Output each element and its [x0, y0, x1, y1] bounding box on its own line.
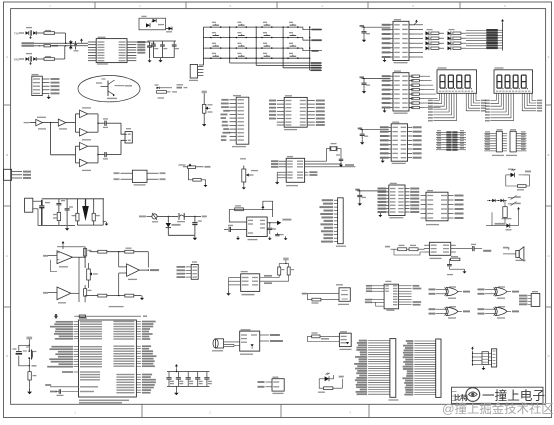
- ic U8 shift register: [269, 95, 325, 130]
- ic U12 LM386: [247, 217, 268, 240]
- ir diode circuit D4: [139, 16, 166, 30]
- capacitor C8: [74, 41, 79, 51]
- reset circuit button S17: [13, 337, 37, 372]
- dc jack J9: [212, 339, 240, 352]
- capacitor bank C18-C21: [166, 371, 211, 387]
- connector J6 analog: [177, 261, 199, 279]
- ic U25 temp sensor: [229, 271, 260, 295]
- resistor R32: [502, 207, 512, 223]
- capacitor C9: [103, 118, 121, 128]
- ground: [378, 212, 384, 217]
- ic U14 74HC595: [382, 70, 414, 113]
- resistor R1: [28, 372, 37, 391]
- connector J8: [519, 291, 540, 306]
- inverter U6A: [76, 140, 88, 163]
- resistor R2: [37, 30, 66, 34]
- net label P3.1/TXD: [22, 45, 35, 47]
- ground: [141, 296, 143, 298]
- potentiometer RV2: [240, 158, 258, 185]
- ic U21 eeprom: [258, 377, 285, 395]
- connector J10: [492, 349, 497, 367]
- wire: [43, 122, 59, 155]
- U1 part text: [79, 400, 129, 404]
- ic U24 interface: [365, 281, 421, 311]
- power flag VCC: [360, 76, 391, 82]
- capacitor decoupling: [362, 83, 371, 89]
- ground: [236, 229, 240, 240]
- resistor R9: [92, 199, 100, 225]
- connector J3 output: [125, 128, 132, 143]
- connector P2 header bundle: [402, 339, 441, 397]
- wire: [66, 114, 80, 132]
- resistor array R24-R31: [436, 130, 466, 151]
- inverter U5A: [36, 117, 46, 130]
- capacitor C14 electrolytic: [192, 216, 202, 236]
- inverter U5C: [80, 107, 92, 117]
- resistor R11: [84, 285, 92, 302]
- net label P3.0/RXD: [22, 42, 35, 44]
- wire bottom rail: [71, 293, 98, 302]
- optocoupler U3 input circuit: [14, 53, 36, 62]
- battery backup circuit D8 D9: [487, 196, 521, 207]
- wire bus to U7: [34, 43, 88, 47]
- fuse F1: [152, 213, 166, 223]
- wire: [79, 257, 85, 302]
- optocoupler U2 input circuit: [14, 27, 36, 36]
- connector J7 expansion: [319, 198, 346, 247]
- capacitor C13: [65, 199, 73, 226]
- resistor R4: [44, 45, 88, 47]
- wire: [30, 122, 36, 124]
- U1 right pins: [113, 321, 156, 394]
- ic U7 MAX232: [96, 37, 127, 63]
- trimmer RV3 circuit: [179, 163, 211, 182]
- wire: [65, 33, 67, 43]
- ground: [243, 185, 245, 187]
- transistor array Q1-Q8 with base resistors: [414, 25, 467, 57]
- svg-text:RXD: RXD: [14, 58, 19, 61]
- net labels keypad rows: [311, 29, 322, 72]
- ground: [464, 269, 466, 271]
- border zone ticks top: [95, 2, 460, 9]
- svg-text:B: B: [548, 153, 550, 157]
- zener diode D5: [166, 216, 181, 236]
- lcd contrast pot RV1: [202, 91, 213, 122]
- ground: [269, 236, 271, 238]
- ground: [275, 172, 279, 184]
- wire mesh to resistor pack: [466, 31, 486, 49]
- capacitor C10: [103, 152, 121, 160]
- trimmer RV4: [85, 263, 98, 288]
- ground: [174, 386, 178, 395]
- speaker LS1: [503, 247, 526, 261]
- capacitor bank C1-C3: [148, 41, 180, 58]
- power flag VCC: [80, 38, 83, 40]
- svg-text:TXD: TXD: [14, 32, 19, 35]
- ground: [363, 38, 365, 40]
- resistor pack R16-R23: [409, 75, 424, 109]
- crystal X2 32768Hz: [327, 143, 344, 163]
- svg-text:A: A: [548, 55, 550, 59]
- ground: [381, 158, 387, 163]
- svg-text:一撞上电子: 一撞上电子: [482, 389, 545, 403]
- capacitor C5: [136, 42, 155, 58]
- ground: [285, 236, 287, 238]
- varistor V1 circuit: [155, 84, 188, 89]
- border zone ticks sides: [4, 105, 552, 307]
- connector J4 dc input: [25, 198, 42, 225]
- diac D6: [166, 213, 207, 222]
- wire: [199, 27, 203, 65]
- battery BT1 circuit: [308, 332, 340, 341]
- resistor R14: [98, 294, 107, 297]
- svg-text:C: C: [6, 254, 8, 258]
- power flag VCC U13: [409, 20, 418, 25]
- ic U16 74HC595: [378, 183, 410, 219]
- ground: [361, 140, 363, 142]
- resistor R10: [84, 249, 92, 256]
- capacitor C12: [56, 199, 65, 213]
- net labels U15 outputs: [413, 126, 422, 158]
- wire bus display segments: [424, 76, 441, 107]
- capacitor decoupling: [360, 134, 369, 140]
- component U10 opto relay: [114, 170, 166, 185]
- ic U4 header: [32, 74, 60, 96]
- connector J1 power in: [4, 169, 31, 180]
- keypad matrix S1-S16: [203, 22, 322, 71]
- ground: [228, 291, 230, 293]
- display DS2 4-digit 7-segment: [494, 67, 533, 93]
- resistor R33 loop: [449, 255, 460, 264]
- display DS1 pin fan: [428, 93, 486, 121]
- ground: [66, 226, 68, 228]
- ground: [383, 108, 389, 113]
- svg-text:B: B: [6, 153, 8, 157]
- wire: [88, 114, 105, 132]
- ground: [194, 236, 196, 238]
- net labels U16 outputs: [410, 188, 419, 214]
- ic U15 74HC595: [380, 122, 412, 165]
- capacitor C16: [447, 265, 465, 276]
- display DS2 pin fan: [485, 93, 542, 121]
- led D7 indicator: [506, 169, 531, 191]
- logo box: [452, 387, 545, 403]
- diode D10: [486, 210, 519, 230]
- connector J5 lcd header: [220, 95, 248, 147]
- resistor R8: [72, 199, 80, 225]
- power flag VCC caps: [175, 364, 178, 372]
- power rail VCC display: [501, 19, 504, 51]
- power flag VCC: [355, 189, 386, 195]
- wire: [81, 42, 83, 43]
- svg-text:@撞上掘金技术社区: @撞上掘金技术社区: [442, 401, 554, 416]
- U1 left pins port0: [50, 321, 102, 340]
- inverter U5B: [58, 119, 67, 129]
- led D11 status: [318, 373, 344, 393]
- connector P1 header bundle: [354, 339, 398, 401]
- resistor pack RP1: [484, 129, 507, 156]
- resistor R13: [125, 248, 149, 268]
- ground: [205, 183, 207, 185]
- resistor R35: [157, 91, 178, 99]
- U1 left pins port2: [47, 346, 102, 368]
- svg-text:C: C: [548, 254, 550, 258]
- U1 reset pin circuit: [45, 384, 98, 396]
- xor gate U19B: [478, 286, 520, 298]
- ic U22 supervisor: [339, 331, 351, 350]
- wire: [64, 46, 66, 59]
- wire: [51, 154, 76, 156]
- ground: [48, 95, 50, 97]
- power ac input label: [139, 216, 152, 218]
- power flag VBAT: [517, 207, 520, 209]
- net label P3.0: [24, 122, 30, 123]
- ic label LM358: [109, 306, 124, 307]
- speaker output: [267, 219, 291, 236]
- wire: [42, 199, 104, 226]
- ground: [149, 58, 151, 60]
- pull-up resistors R36 R37: [260, 264, 294, 285]
- svg-text:D: D: [548, 354, 550, 358]
- ground: [160, 58, 162, 60]
- xor gate U19A: [429, 286, 471, 298]
- ground: [29, 389, 31, 391]
- resistor R12: [98, 250, 107, 253]
- transistor detail ellipse: [78, 76, 140, 102]
- U7 pins: [88, 41, 145, 65]
- ground: [473, 364, 486, 370]
- U1 left pins control: [62, 371, 100, 380]
- wire: [121, 123, 125, 154]
- power flag VCC: [358, 128, 389, 134]
- svg-text:D: D: [6, 354, 8, 358]
- ground: [30, 62, 32, 63]
- wire reset line: [54, 314, 147, 318]
- wire: [168, 234, 195, 236]
- resistor R15: [125, 294, 142, 297]
- wire: [88, 146, 105, 163]
- opamp U11A: [48, 251, 73, 268]
- power flag VCC opamp: [62, 241, 65, 249]
- ic U1 AT89C52 mcu: [79, 318, 137, 397]
- U9 right pins: [305, 161, 356, 176]
- capacitor C11 electrolytic: [39, 200, 50, 226]
- wire top rail: [85, 251, 98, 253]
- xor gate U19C: [429, 306, 471, 319]
- pull-up network RP3: [471, 347, 491, 366]
- power flag VCC: [360, 25, 391, 31]
- capacitor decoupling: [357, 195, 366, 201]
- wire feedback: [51, 247, 86, 272]
- resistor R3: [37, 56, 65, 60]
- ic U20 regulator AMS1117: [240, 329, 283, 355]
- power flag VSS: [82, 199, 89, 221]
- resistor pack RP2: [506, 129, 527, 156]
- ground: [203, 122, 205, 124]
- capacitor decoupling: [362, 32, 371, 38]
- ground: [383, 57, 389, 62]
- wire stub: [321, 195, 334, 197]
- ground: [359, 201, 361, 203]
- display DS1 4-digit 7-segment: [437, 67, 477, 93]
- ground: [106, 222, 108, 224]
- xor gate U19D: [478, 306, 520, 319]
- clamp diodes D1 D2: [69, 40, 73, 49]
- svg-text:A: A: [6, 55, 8, 59]
- ground: [363, 89, 365, 91]
- buzzer BZ1 circuit: [302, 284, 351, 305]
- net label AIN1: [43, 255, 48, 257]
- ic U9 DS1302 rtc: [271, 156, 305, 186]
- inverter U6B: [80, 159, 92, 171]
- net label AIN2: [43, 292, 48, 294]
- ground: [340, 163, 342, 165]
- opamp U11C: [48, 287, 71, 303]
- resistor R7: [53, 212, 61, 225]
- ic U13 74HC595: [382, 19, 414, 63]
- inverter U5D: [80, 128, 92, 140]
- wire: [107, 273, 127, 296]
- wire: [77, 199, 105, 225]
- border zone ticks bottom: [142, 404, 369, 417]
- opamp U11B: [119, 252, 159, 280]
- connector J2 keypad header: [189, 65, 203, 82]
- resistor pack RN1: [487, 29, 503, 49]
- capacitor C17 output: [456, 244, 491, 252]
- transistor Q5: [166, 27, 173, 33]
- wire: [107, 251, 125, 252]
- ground: [30, 36, 32, 37]
- capacitor C15 input: [224, 225, 247, 232]
- power flag VCC pullups: [283, 258, 288, 265]
- feedback loop with pot RV5: [229, 201, 272, 222]
- ic U17 sensor: [421, 190, 464, 225]
- ic U18 driver: [385, 242, 456, 259]
